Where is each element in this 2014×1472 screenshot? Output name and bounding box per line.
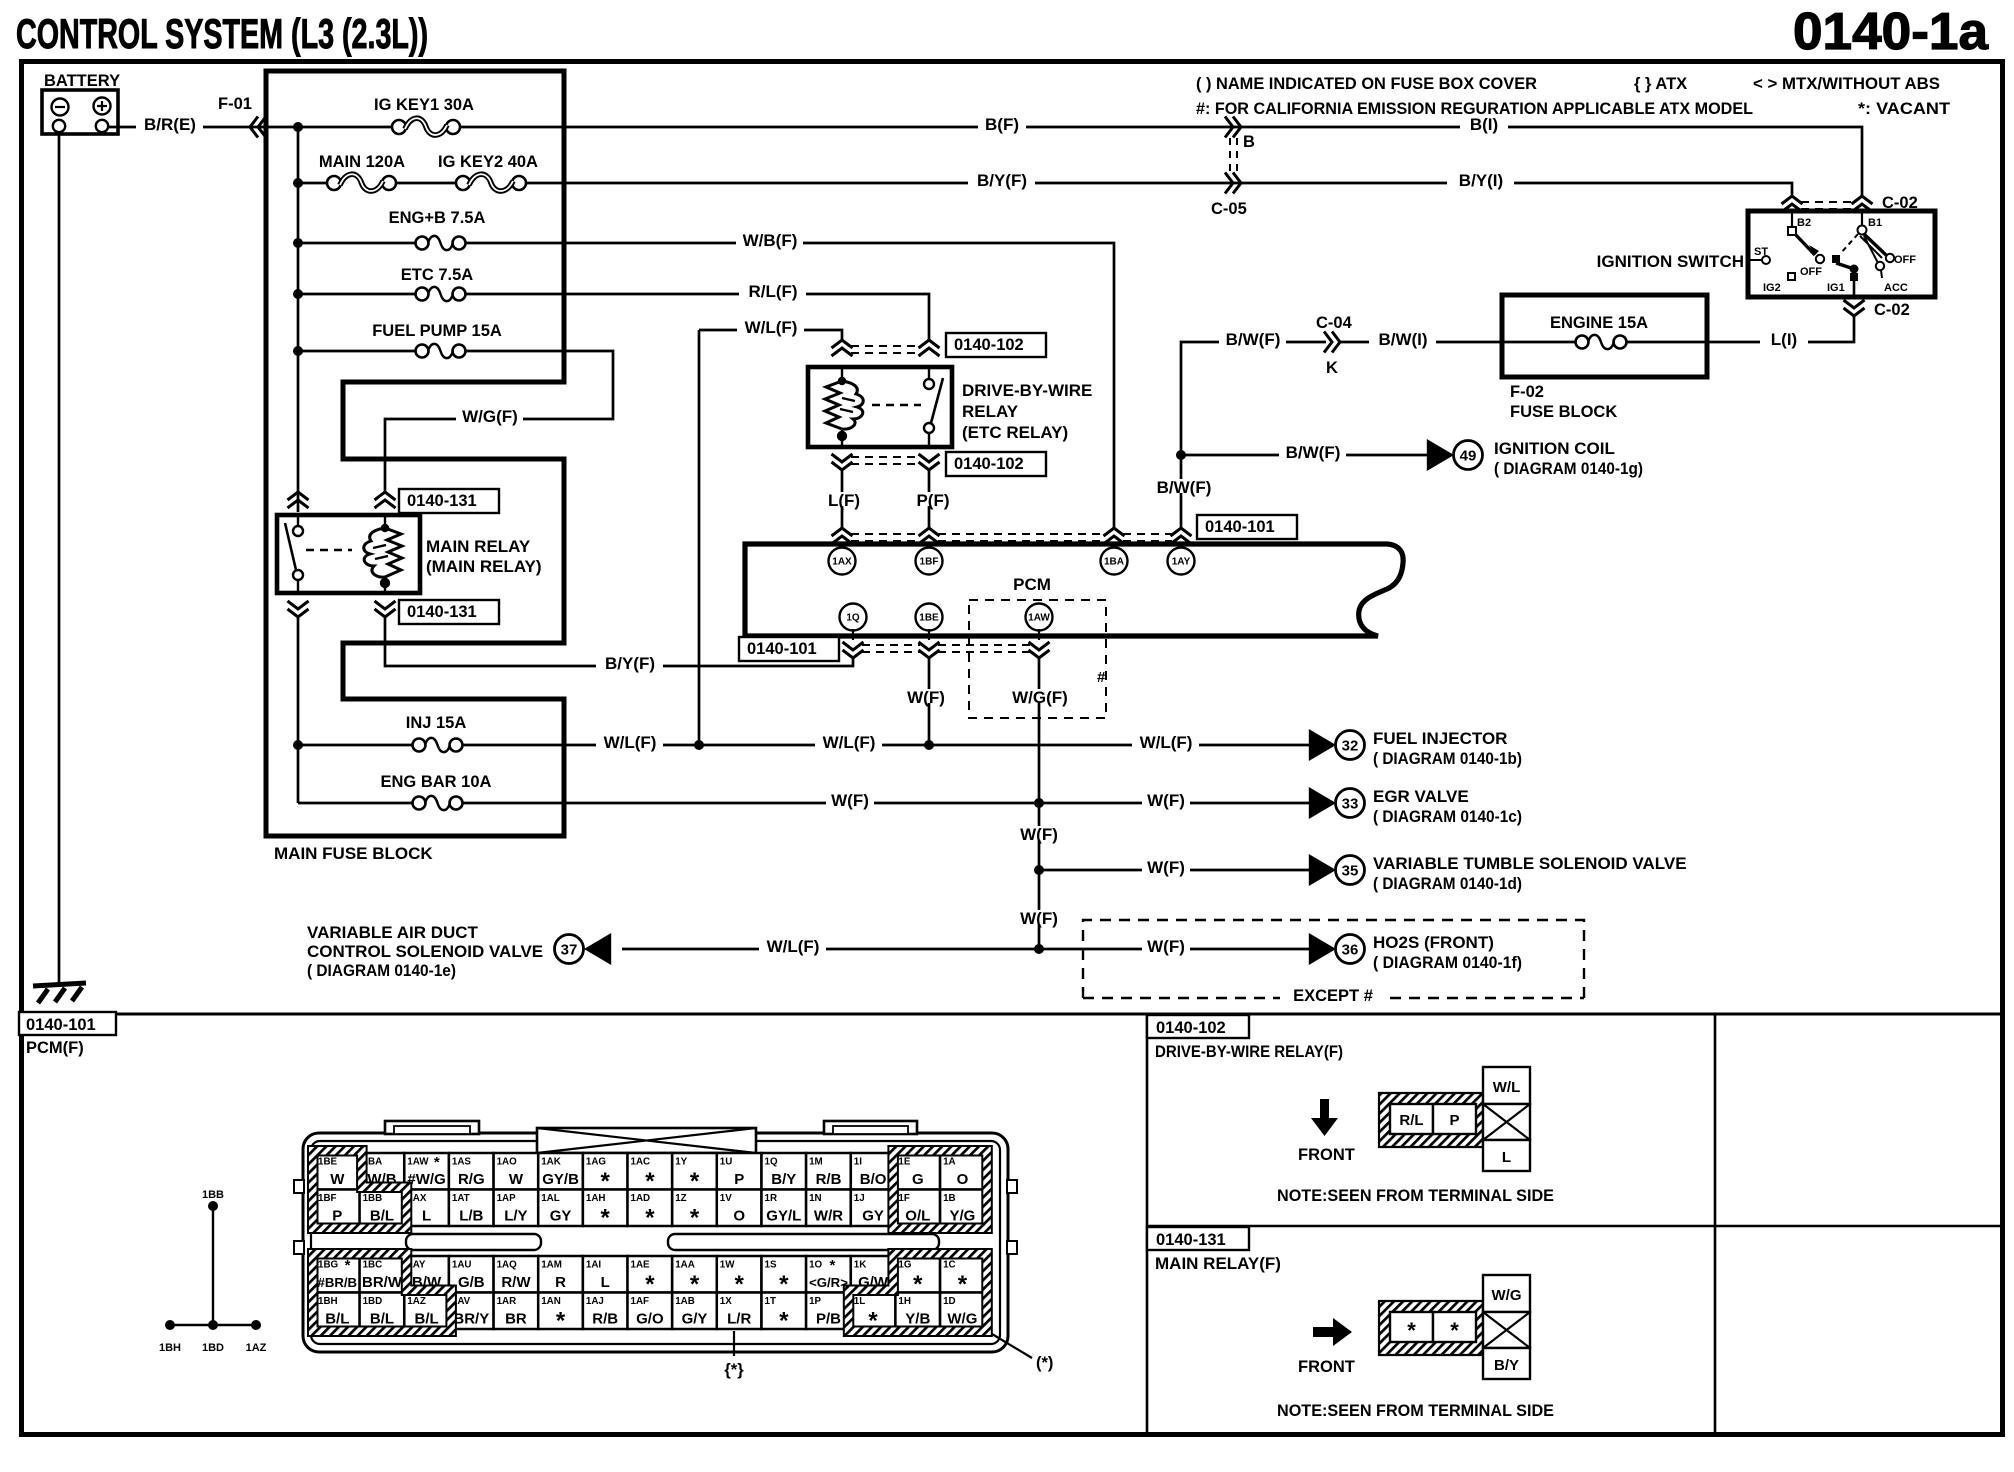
svg-text:RELAY: RELAY — [962, 402, 1019, 421]
svg-text:W/G: W/G — [1492, 1287, 1522, 1304]
PCM pin cell 1A O — [940, 1153, 985, 1190]
svg-text:1W: 1W — [720, 1260, 735, 1271]
svg-text:33: 33 — [1342, 796, 1359, 813]
callout {*} below 1X — [733, 1331, 735, 1356]
wire B/W(I) to engine fuse — [1340, 341, 1502, 344]
PCM pin cell 1AO W — [494, 1153, 539, 1190]
tag 0140-131 panel — [1147, 1227, 1249, 1250]
svg-text:L/B: L/B — [459, 1208, 483, 1225]
arrow to variable tumble solenoid valve — [1309, 854, 1336, 886]
PCM pin cell 1BB B/L — [360, 1190, 405, 1227]
svg-text:G/O: G/O — [636, 1311, 664, 1328]
svg-text:B/W(F): B/W(F) — [1226, 330, 1281, 349]
main relay connector face — [1379, 1301, 1483, 1355]
svg-text:B/L: B/L — [370, 1208, 394, 1225]
drive-by-wire relay (ETC relay) — [808, 367, 952, 447]
PCM pin cell 1BG * #BR/B — [315, 1256, 360, 1293]
svg-text:OFF: OFF — [1800, 266, 1822, 278]
PCM pin cell 1BD B/L — [360, 1293, 405, 1330]
fuse IG KEY1 30A — [298, 96, 564, 135]
svg-text:0140-101: 0140-101 — [26, 1016, 96, 1034]
svg-text:*: * — [645, 1205, 655, 1232]
PCM pin cell 1AD * — [628, 1190, 673, 1232]
svg-text:*: * — [690, 1205, 700, 1232]
svg-text:1G: 1G — [898, 1260, 911, 1271]
svg-text:MAIN 120A: MAIN 120A — [319, 153, 405, 171]
svg-text:W/L(F): W/L(F) — [1140, 733, 1193, 752]
svg-text:( DIAGRAM 0140-1e): ( DIAGRAM 0140-1e) — [307, 961, 456, 980]
svg-text:O/L: O/L — [905, 1208, 930, 1225]
svg-text:GY/L: GY/L — [766, 1208, 801, 1225]
svg-text:C-05: C-05 — [1211, 200, 1247, 218]
circle 32 fuel injector — [1336, 731, 1365, 760]
svg-text:1O: 1O — [809, 1260, 822, 1271]
fuse MAIN 120A — [298, 153, 463, 191]
circle 36 HO2S front — [1336, 935, 1365, 964]
svg-text:W/B(F): W/B(F) — [743, 231, 798, 250]
svg-text:B/Y(F): B/Y(F) — [605, 654, 655, 673]
svg-text:W/G(F): W/G(F) — [1012, 688, 1068, 707]
svg-text:W(F): W(F) — [1147, 937, 1185, 956]
svg-text:DRIVE-BY-WIRE RELAY(F): DRIVE-BY-WIRE RELAY(F) — [1155, 1042, 1343, 1061]
svg-text:FUSE BLOCK: FUSE BLOCK — [1510, 403, 1617, 421]
svg-text:1K: 1K — [854, 1260, 867, 1271]
tag 0140-101 top right — [1197, 515, 1297, 539]
svg-text:C-04: C-04 — [1316, 314, 1353, 332]
PCM pin 1AW — [1026, 604, 1053, 631]
fuse FUEL PUMP 15A — [298, 322, 564, 358]
svg-text:W(F): W(F) — [1147, 858, 1185, 877]
fuse INJ 15A — [298, 714, 564, 752]
connector chevrons main relay coil top (0140-131) — [375, 492, 396, 508]
svg-text:1BD: 1BD — [202, 1342, 224, 1354]
PCM pin cell 1BF P — [315, 1190, 360, 1227]
svg-text:1BG: 1BG — [318, 1260, 339, 1271]
svg-text:0140-131: 0140-131 — [1156, 1231, 1226, 1249]
section divider vertical left of relay panels — [1146, 1014, 1149, 1434]
svg-text:*: * — [601, 1205, 611, 1232]
svg-text:W/G: W/G — [947, 1311, 977, 1328]
circle 33 EGR valve — [1336, 789, 1365, 818]
svg-text:PCM: PCM — [1013, 575, 1051, 594]
svg-text:O: O — [957, 1171, 969, 1188]
svg-text:1C: 1C — [943, 1260, 956, 1271]
svg-text:1Q: 1Q — [765, 1157, 778, 1168]
fuse ETC 7.5A — [298, 266, 564, 301]
PCM pin cell 1AL GY — [538, 1190, 583, 1227]
svg-text:*: VACANT: *: VACANT — [1858, 100, 1950, 118]
svg-text:(*): (*) — [1036, 1354, 1053, 1372]
PCM pin cell 1H Y/B — [895, 1293, 940, 1330]
PCM pin cell 1I B/O — [851, 1153, 896, 1190]
svg-text:1BF: 1BF — [920, 557, 939, 568]
circle 49 ignition coil — [1454, 441, 1483, 470]
svg-text:1E: 1E — [898, 1157, 910, 1168]
svg-text:1X: 1X — [720, 1296, 732, 1307]
svg-text:1AA: 1AA — [675, 1260, 695, 1271]
PCM pin cell 1AG * — [583, 1153, 628, 1195]
svg-text:L(F): L(F) — [828, 491, 860, 510]
svg-text:ENG+B 7.5A: ENG+B 7.5A — [389, 209, 486, 227]
wire W/L(F) INJ fuse to fuel injector — [564, 744, 1310, 747]
svg-text:1BH: 1BH — [318, 1296, 338, 1307]
svg-text:B(F): B(F) — [985, 115, 1019, 134]
svg-text:1AZ: 1AZ — [246, 1342, 267, 1354]
svg-text:W/G(F): W/G(F) — [462, 407, 518, 426]
svg-text:#W/G: #W/G — [407, 1171, 445, 1188]
svg-text:1AF: 1AF — [631, 1296, 650, 1307]
PCM pin cell 1AZ B/L — [404, 1293, 449, 1330]
svg-text:IG2: IG2 — [1763, 282, 1781, 294]
svg-text:B/Y(I): B/Y(I) — [1459, 171, 1503, 190]
svg-text:W(F): W(F) — [907, 688, 945, 707]
svg-text:1AH: 1AH — [586, 1193, 606, 1204]
svg-text:0140-131: 0140-131 — [407, 492, 477, 510]
svg-text:B/Y: B/Y — [771, 1171, 796, 1188]
svg-text:( DIAGRAM 0140-1g): ( DIAGRAM 0140-1g) — [1494, 459, 1643, 478]
connector top tab left — [385, 1121, 479, 1134]
PCM pin cell 1AR BR — [494, 1293, 539, 1330]
svg-text:*: * — [556, 1308, 566, 1335]
main relay MAIN RELAY — [277, 515, 420, 593]
svg-text:1AE: 1AE — [631, 1260, 651, 1271]
connector chevrons below drive-by-wire relay — [832, 454, 853, 470]
wire R/L(F) from ETC fuse to DBW relay switch — [564, 294, 929, 340]
ground tree 1BB/1BH/1BD/1AZ — [159, 1189, 267, 1354]
svg-text:W/L(F): W/L(F) — [604, 733, 657, 752]
arrow to ignition coil — [1427, 439, 1454, 471]
svg-text:(MAIN RELAY): (MAIN RELAY) — [426, 557, 542, 576]
wire W/B(F) from ENG+B fuse to PCM 1BA — [564, 243, 1114, 528]
PCM pin 1AY — [1180, 546, 1182, 561]
wire B/W(F) to ignition coil — [1181, 454, 1429, 457]
svg-text:BR/Y: BR/Y — [453, 1311, 489, 1328]
PCM pin cell 1Z * — [672, 1190, 717, 1232]
svg-text:1AI: 1AI — [586, 1260, 602, 1271]
svg-text:R/B: R/B — [592, 1311, 618, 1328]
svg-text:NOTE:SEEN FROM TERMINAL SIDE: NOTE:SEEN FROM TERMINAL SIDE — [1277, 1402, 1554, 1420]
svg-text:B/L: B/L — [370, 1311, 394, 1328]
PCM pin 1BE — [916, 604, 943, 631]
arrow to fuel injector — [1309, 729, 1336, 761]
svg-text:P: P — [332, 1208, 342, 1225]
svg-text:1BD: 1BD — [363, 1296, 383, 1307]
svg-text:B/W(F): B/W(F) — [1286, 443, 1341, 462]
svg-text:1U: 1U — [720, 1157, 733, 1168]
hatched group 1BE/1BF/1BB — [308, 1146, 411, 1233]
PCM pin cell 1U P — [717, 1153, 762, 1190]
svg-text:W(F): W(F) — [831, 791, 869, 810]
PCM pin cell 1AN * — [538, 1293, 583, 1335]
fuse ENG+B 7.5A — [298, 209, 564, 250]
dashed box california PCM section — [969, 600, 1106, 718]
svg-text:<G/R>: <G/R> — [809, 1275, 848, 1290]
svg-text:1S: 1S — [765, 1260, 777, 1271]
svg-text:*: * — [1450, 1318, 1459, 1343]
fuse block F-02 with ENGINE 15A fuse — [1502, 295, 1707, 377]
connector C-04 — [1324, 332, 1340, 353]
dashed box EXCEPT california — [1083, 920, 1584, 998]
svg-text:1L: 1L — [854, 1296, 865, 1307]
svg-text:(ETC RELAY): (ETC RELAY) — [962, 423, 1068, 442]
svg-text:G/B: G/B — [458, 1274, 485, 1291]
wire W/G(F) from PCM 1AW down to HO2S row — [1038, 658, 1041, 949]
PCM pin cell 1AJ R/B — [583, 1293, 628, 1330]
svg-text:1AQ: 1AQ — [497, 1260, 518, 1271]
wire B/W(F) from C-04 corner down to PCM 1AY with coil branch — [1181, 342, 1326, 528]
svg-text:1B: 1B — [943, 1193, 956, 1204]
svg-text:O: O — [733, 1208, 745, 1225]
hatched group 1E/1A/1F/1B — [888, 1146, 991, 1233]
fuse IG KEY2 40A — [438, 153, 564, 191]
svg-text:VARIABLE AIR DUCT: VARIABLE AIR DUCT — [307, 923, 479, 942]
PCM pin cell 1AI L — [583, 1256, 628, 1293]
svg-text:1AW: 1AW — [1028, 613, 1050, 624]
svg-text:B/W(I): B/W(I) — [1378, 330, 1427, 349]
svg-text:1BF: 1BF — [318, 1193, 337, 1204]
svg-text:GY: GY — [862, 1208, 884, 1225]
svg-text:DRIVE-BY-WIRE: DRIVE-BY-WIRE — [962, 381, 1092, 400]
wire W/L(F) from INJ circuit to DBW relay coil — [699, 330, 842, 340]
svg-text:BATTERY: BATTERY — [44, 72, 120, 90]
FRONT arrow down — [1311, 1099, 1338, 1136]
connector chevrons above drive-by-wire relay (0140-102) — [832, 340, 853, 356]
svg-text:IG KEY1 30A: IG KEY1 30A — [374, 96, 474, 114]
svg-text:F-01: F-01 — [218, 95, 252, 113]
PCM pin cell 1AE * — [628, 1256, 673, 1298]
svg-text:B/Y(F): B/Y(F) — [977, 171, 1027, 190]
svg-text:P: P — [1449, 1112, 1459, 1129]
svg-text:1T: 1T — [765, 1296, 776, 1307]
svg-text:*: * — [345, 1257, 351, 1274]
wire B/R(E) — [108, 126, 298, 129]
svg-text:1AD: 1AD — [631, 1193, 651, 1204]
svg-text:ENG BAR 10A: ENG BAR 10A — [381, 773, 492, 791]
svg-text:1R: 1R — [765, 1193, 778, 1204]
wire B/Y(F) main relay to PCM 1Q — [385, 617, 853, 666]
svg-text:PCM(F): PCM(F) — [26, 1039, 84, 1057]
svg-text:1AG: 1AG — [586, 1157, 607, 1168]
PCM pin 1BA — [1113, 546, 1115, 561]
svg-text:IGNITION SWITCH: IGNITION SWITCH — [1597, 252, 1744, 271]
svg-text:*: * — [779, 1308, 789, 1335]
svg-text:1AP: 1AP — [497, 1193, 517, 1204]
svg-text:L/R: L/R — [727, 1311, 751, 1328]
svg-text:OFF: OFF — [1894, 254, 1916, 266]
PCM pin cell 1BA W/B — [360, 1153, 405, 1190]
svg-text:1AT: 1AT — [452, 1193, 470, 1204]
svg-text:B/R(E): B/R(E) — [144, 115, 196, 134]
svg-text:1AX: 1AX — [832, 557, 852, 568]
drive-by-wire relay connector face — [1379, 1093, 1483, 1147]
svg-text:*: * — [434, 1154, 440, 1171]
svg-text:EXCEPT #: EXCEPT # — [1293, 987, 1373, 1005]
wire W/G(F) fuel pump to main relay coil — [385, 351, 613, 492]
svg-text:K: K — [1326, 359, 1338, 377]
wire W(F) from PCM 1BE down to W/L junction — [928, 658, 931, 745]
PCM connector shell — [303, 1133, 1008, 1352]
svg-text:1BH: 1BH — [159, 1342, 181, 1354]
svg-text:MAIN RELAY(F): MAIN RELAY(F) — [1155, 1254, 1281, 1273]
svg-text:R/W: R/W — [501, 1274, 531, 1291]
svg-text:P: P — [734, 1171, 744, 1188]
PCM pin cell 1B Y/G — [940, 1190, 985, 1227]
svg-text:P/B: P/B — [816, 1311, 841, 1328]
svg-text:C-02: C-02 — [1874, 301, 1910, 319]
svg-text:FUEL INJECTOR: FUEL INJECTOR — [1373, 729, 1507, 748]
PCM pin cell 1G * — [895, 1256, 940, 1298]
svg-text:1BC: 1BC — [363, 1260, 383, 1271]
PCM pin cell 1Q B/Y — [762, 1153, 807, 1190]
svg-text:HO2S (FRONT): HO2S (FRONT) — [1373, 933, 1494, 952]
wire battery negative to ground — [58, 132, 61, 983]
svg-text:GY/B: GY/B — [542, 1171, 579, 1188]
PCM pin cell 1D W/G — [940, 1293, 985, 1330]
PCM pin cell 1M R/B — [806, 1153, 851, 1190]
svg-text:1I: 1I — [854, 1157, 862, 1168]
svg-text:W(F): W(F) — [1147, 791, 1185, 810]
PCM pin cell 1BC BR/W — [360, 1256, 405, 1293]
circle 37 variable air duct control solenoid valve — [555, 935, 584, 964]
PCM pin cell 1X L/R — [717, 1293, 762, 1330]
connector chevrons main relay switch top — [288, 492, 309, 508]
svg-text:{*}: {*} — [724, 1361, 744, 1379]
connector middle slots — [406, 1234, 541, 1250]
svg-text:FRONT: FRONT — [1298, 1358, 1355, 1376]
svg-text:Y/B: Y/B — [905, 1311, 930, 1328]
battery — [42, 72, 120, 134]
tag 0140-101 lower panel — [19, 1012, 116, 1035]
wire B/Y(F)/B/Y(I) from IG KEY2 fuse to ignition switch B2 — [564, 183, 1792, 196]
svg-text:*: * — [830, 1257, 836, 1274]
PCM pin cell 1V O — [717, 1190, 762, 1227]
svg-text:L/Y: L/Y — [504, 1208, 527, 1225]
svg-text:FRONT: FRONT — [1298, 1146, 1355, 1164]
arrow to EGR valve — [1309, 787, 1336, 819]
main fuse block outline — [266, 71, 564, 836]
PCM pin cell 1AK GY/B — [538, 1153, 583, 1190]
svg-text:36: 36 — [1342, 942, 1359, 959]
hatched group 1G/1C/1L/1H/1D — [844, 1249, 992, 1336]
wire W(F) ENG BAR fuse to EGR valve — [564, 802, 1310, 805]
PCM pin cell 1K G/W — [851, 1256, 896, 1293]
svg-text:W: W — [509, 1171, 524, 1188]
svg-text:#BR/B: #BR/B — [318, 1275, 358, 1290]
wire W(F) to variable tumble solenoid valve — [1039, 869, 1310, 872]
connector 0140-101 chevrons below PCM — [852, 629, 854, 640]
connector crossed lock box — [537, 1128, 756, 1153]
svg-text:1AN: 1AN — [541, 1296, 561, 1307]
svg-text:0140-102: 0140-102 — [1156, 1019, 1226, 1037]
arrow to HO2S — [1309, 933, 1336, 965]
svg-text:L: L — [1502, 1149, 1511, 1166]
svg-text:P(F): P(F) — [916, 491, 949, 510]
svg-text:R/L(F): R/L(F) — [748, 282, 797, 301]
svg-text:IG1: IG1 — [1827, 282, 1845, 294]
bus junction dots — [293, 122, 303, 132]
PCM pin cell 1AS R/G — [449, 1153, 494, 1190]
PCM pin cell 1AM R — [538, 1256, 583, 1293]
svg-text:EGR VALVE: EGR VALVE — [1373, 787, 1469, 806]
callout (*) right — [992, 1334, 1032, 1358]
svg-text:( DIAGRAM 0140-1f): ( DIAGRAM 0140-1f) — [1373, 953, 1522, 972]
svg-text:0140-102: 0140-102 — [954, 336, 1024, 354]
svg-text:( DIAGRAM 0140-1c): ( DIAGRAM 0140-1c) — [1373, 807, 1522, 826]
svg-text:1AM: 1AM — [541, 1260, 562, 1271]
svg-text:Y/G: Y/G — [949, 1208, 975, 1225]
svg-text:1BE: 1BE — [919, 613, 939, 624]
PCM pin cell 1J GY — [851, 1190, 896, 1227]
svg-text:1Q: 1Q — [846, 613, 860, 624]
svg-text:1Y: 1Y — [675, 1157, 687, 1168]
tag 0140-101 bottom left — [739, 637, 839, 661]
PCM pin cell 1AW * #W/G — [404, 1153, 449, 1190]
svg-text:*: * — [1407, 1318, 1416, 1343]
tag 0140-102 lower — [946, 452, 1046, 476]
svg-text:32: 32 — [1342, 738, 1359, 755]
svg-text:0140-101: 0140-101 — [747, 640, 817, 658]
svg-text:1AB: 1AB — [675, 1296, 695, 1307]
section divider vertical right — [1714, 1014, 1717, 1434]
svg-text:1AZ: 1AZ — [407, 1296, 426, 1307]
svg-text:1AR: 1AR — [497, 1296, 517, 1307]
svg-text:1A: 1A — [943, 1157, 956, 1168]
PCM pin cell 1AT L/B — [449, 1190, 494, 1227]
svg-text:< > MTX/WITHOUT ABS: < > MTX/WITHOUT ABS — [1753, 75, 1940, 93]
PCM pin cell 1AH * — [583, 1190, 628, 1232]
tag 0140-102 upper — [946, 333, 1046, 357]
svg-text:FUEL PUMP 15A: FUEL PUMP 15A — [372, 322, 502, 340]
PCM pin cell 1N W/R — [806, 1190, 851, 1227]
PCM pin cell 1W * — [717, 1256, 762, 1298]
svg-text:W/L(F): W/L(F) — [767, 937, 820, 956]
svg-text:B/Y: B/Y — [1494, 1357, 1519, 1374]
PCM pin cell 1AB G/Y — [672, 1293, 717, 1330]
svg-text:1AS: 1AS — [452, 1157, 472, 1168]
svg-text:1BB: 1BB — [202, 1189, 224, 1201]
section divider horizontal — [19, 1013, 2003, 1016]
connector side bumps — [294, 1180, 304, 1193]
ignition switch — [1748, 211, 1935, 299]
svg-text:1M: 1M — [809, 1157, 823, 1168]
connector C-02 upper — [1782, 196, 1803, 212]
svg-text:L: L — [422, 1208, 431, 1225]
svg-text:0140-102: 0140-102 — [954, 455, 1024, 473]
svg-text:0140-131: 0140-131 — [407, 603, 477, 621]
tag 0140-131 upper — [399, 489, 499, 513]
svg-text:1AL: 1AL — [541, 1193, 560, 1204]
svg-text:1P: 1P — [809, 1296, 821, 1307]
wire L(I) ignition switch to engine fuse — [1707, 316, 1854, 342]
PCM pin cell 1AU G/B — [449, 1256, 494, 1293]
svg-text:{ } ATX: { } ATX — [1634, 75, 1687, 93]
svg-text:W(F): W(F) — [1020, 825, 1058, 844]
svg-text:1AK: 1AK — [541, 1157, 561, 1168]
svg-text:B(I): B(I) — [1470, 115, 1498, 134]
svg-text:F-02: F-02 — [1510, 383, 1544, 401]
svg-text:G/Y: G/Y — [682, 1311, 708, 1328]
svg-text:1AU: 1AU — [452, 1260, 472, 1271]
section divider horizontal between relay panels — [1147, 1225, 2003, 1228]
svg-text:1J: 1J — [854, 1193, 865, 1204]
svg-text:L(I): L(I) — [1771, 330, 1797, 349]
svg-text:1BE: 1BE — [318, 1157, 338, 1168]
PCM pin cell 1S * — [762, 1256, 807, 1298]
svg-text:B/W(F): B/W(F) — [1157, 478, 1212, 497]
svg-text:W/L: W/L — [1493, 1079, 1521, 1096]
svg-text:MAIN FUSE BLOCK: MAIN FUSE BLOCK — [274, 844, 433, 863]
PCM pin cell 1BH B/L — [315, 1293, 360, 1330]
